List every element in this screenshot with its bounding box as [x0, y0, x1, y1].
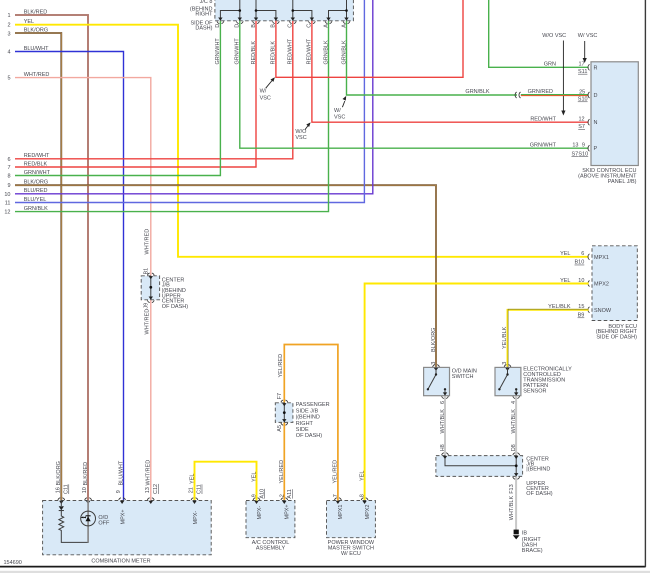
combination meter box	[43, 501, 212, 565]
ECU pin N 12 S7	[530, 117, 597, 131]
svg-text:F13: F13	[509, 484, 515, 493]
svg-text:PANEL J/B): PANEL J/B)	[608, 179, 637, 185]
svg-text:WHT/RED: WHT/RED	[144, 309, 150, 335]
svg-text:B9: B9	[578, 313, 585, 319]
passenger J/B junction node	[283, 403, 286, 423]
svg-text:S10: S10	[578, 97, 588, 103]
svg-text:GRN: GRN	[544, 62, 556, 68]
body ECU pin MPX1 6 B10	[560, 251, 609, 266]
svg-text:9: 9	[7, 183, 10, 189]
svg-text:B: B	[251, 24, 257, 28]
meter pin 13 C12	[145, 460, 159, 504]
passenger J/B pin A5	[277, 419, 288, 432]
wire BLU/RED 10 (exits top of page)	[15, 0, 373, 194]
O/D switch contacts	[427, 367, 447, 395]
svg-text:BLU/WHT: BLU/WHT	[24, 46, 49, 52]
J/C internal bus pair D-D	[220, 0, 241, 21]
svg-text:GRN/WHT: GRN/WHT	[215, 38, 221, 65]
J/C pin D2	[235, 18, 244, 28]
svg-text:BLU/RED: BLU/RED	[24, 188, 48, 194]
svg-text:16: 16	[55, 487, 61, 493]
center J/B pin H8 entry	[442, 453, 449, 459]
svg-text:1: 1	[7, 13, 10, 19]
svg-text:10: 10	[82, 487, 88, 493]
svg-text:GRN/BLK: GRN/BLK	[465, 89, 489, 95]
svg-text:RED/WHT: RED/WHT	[288, 38, 294, 64]
center J/B internal bus	[445, 456, 518, 477]
svg-text:W/ ECU: W/ ECU	[341, 551, 361, 557]
wire YEL 2 (left row 2 to body ECU MPX1)	[15, 25, 589, 257]
svg-text:GRN/RED: GRN/RED	[528, 89, 553, 95]
center J/B junction node	[149, 276, 152, 300]
svg-text:YEL: YEL	[189, 474, 195, 484]
sensor pin 4	[511, 392, 520, 404]
O/D switch pin 6	[440, 392, 449, 404]
wire GRN (from top of page to skid control ECU pin R)	[489, 0, 589, 67]
svg-text:R: R	[594, 65, 598, 71]
wire YEL (meter pin 21 to A/C control pin 9)	[189, 462, 257, 501]
svg-text:C12: C12	[153, 484, 159, 494]
svg-text:S10: S10	[578, 151, 588, 157]
svg-text:MPX2: MPX2	[594, 282, 609, 288]
svg-text:P: P	[594, 146, 598, 152]
svg-text:DASH): DASH)	[195, 26, 212, 32]
svg-text:IB: IB	[522, 530, 528, 536]
passenger J/B pin F7	[277, 393, 288, 406]
svg-text:3: 3	[7, 32, 10, 38]
label W/ VSC (top, arrow to ECU pin R wire)	[578, 33, 598, 63]
svg-text:9: 9	[582, 143, 585, 149]
junction connector J/C (behind right side of dash)	[190, 0, 354, 32]
svg-text:C11: C11	[197, 484, 203, 494]
svg-text:D: D	[215, 24, 221, 28]
svg-text:N: N	[594, 120, 598, 126]
svg-text:OFF: OFF	[98, 521, 110, 527]
wire RED/BLK 7	[15, 21, 256, 167]
svg-text:W/: W/	[260, 88, 267, 94]
svg-text:GRN/WHT: GRN/WHT	[530, 143, 557, 149]
svg-text:SNOW: SNOW	[594, 308, 612, 314]
svg-text:154690: 154690	[4, 560, 22, 566]
wire WHT/BLK (O/D switch pin 6 to center J/B pin H8)	[440, 396, 446, 456]
svg-text:13: 13	[145, 487, 151, 493]
label W/O VSC (RED/WHT branch)	[295, 122, 310, 141]
svg-text:MPX-: MPX-	[257, 506, 263, 520]
svg-text:11: 11	[5, 201, 11, 207]
svg-text:A10: A10	[259, 489, 265, 499]
J/C pin A1	[323, 18, 332, 28]
O/D switch pin 3	[431, 328, 440, 371]
svg-text:WHT/BLK: WHT/BLK	[509, 496, 515, 521]
power window master switch box	[327, 501, 376, 557]
svg-text:2: 2	[279, 494, 285, 497]
wire GRN/WHT 8	[15, 21, 220, 176]
svg-text:12: 12	[578, 117, 584, 123]
svg-text:D: D	[594, 93, 598, 99]
svg-text:VSC: VSC	[334, 114, 345, 120]
inline connector (( on GRN/BLK to GRN/RED	[515, 92, 520, 98]
svg-text:S7: S7	[571, 151, 578, 157]
svg-text:YEL/BLK: YEL/BLK	[502, 326, 508, 349]
J/C pin D1	[215, 18, 224, 28]
label W/ VSC (GRN/BLK branch)	[334, 96, 346, 121]
svg-text:RED/BLK: RED/BLK	[271, 41, 277, 65]
label W/O VSC (top, arrow to ECU pin N wire)	[542, 33, 566, 116]
PW pin 8	[360, 494, 368, 504]
svg-text:YEL/RED: YEL/RED	[278, 354, 284, 378]
wire RED/WHT (pin C2, W/O VSC, to skid control ECU pin N)	[312, 21, 589, 122]
svg-text:MPX-: MPX-	[193, 511, 199, 525]
svg-text:SENSOR: SENSOR	[523, 388, 546, 394]
wire RED/WHT 6	[15, 21, 293, 159]
svg-text:SIDE OF DASH): SIDE OF DASH)	[596, 335, 637, 341]
svg-text:OF DASH): OF DASH)	[526, 491, 552, 497]
svg-text:RED/WHT: RED/WHT	[24, 153, 50, 159]
svg-text:J/C 8: J/C 8	[200, 0, 213, 5]
svg-text:W/ VSC: W/ VSC	[578, 33, 598, 39]
passenger side J/B (behind right side of dash)	[275, 402, 329, 439]
svg-text:D8: D8	[511, 444, 517, 451]
svg-text:8: 8	[360, 494, 366, 497]
svg-text:6: 6	[7, 157, 10, 163]
svg-text:A: A	[323, 24, 329, 28]
label W/ VSC (RED/BLK branch)	[260, 77, 275, 101]
wire WHT/BLK (center J/B F13 to ground IB)	[509, 476, 516, 529]
svg-text:YEL: YEL	[560, 251, 570, 257]
svg-text:F7: F7	[277, 393, 283, 399]
wire YEL (body ECU MPX2 to power window master switch pin 8)	[359, 284, 588, 501]
svg-text:WHT/BLK: WHT/BLK	[511, 409, 517, 434]
wire WHT/RED 5 (left row 5 through center J/B to meter pin 13)	[15, 78, 151, 501]
svg-text:WHT/RED: WHT/RED	[144, 229, 150, 255]
svg-text:SIDE J/B: SIDE J/B	[296, 408, 319, 414]
svg-text:YEL: YEL	[359, 471, 365, 481]
meter pin 9	[116, 460, 125, 504]
electronically controlled transmission pattern sensor	[495, 366, 572, 395]
meter internal resistor	[59, 511, 88, 543]
svg-text:ASSEMBLY: ASSEMBLY	[256, 545, 286, 551]
svg-text:RED/BLK: RED/BLK	[24, 161, 48, 167]
svg-text:W/: W/	[334, 108, 341, 114]
svg-text:17: 17	[578, 62, 584, 68]
svg-text:MPX+: MPX+	[285, 504, 291, 519]
svg-text:A5: A5	[277, 425, 283, 432]
svg-text:B1: B1	[144, 268, 150, 275]
sensor pin 3	[502, 362, 511, 371]
svg-text:9: 9	[252, 494, 258, 497]
svg-text:25: 25	[579, 89, 585, 95]
wire BLK/RED 1 (left row 1 to combination meter pin 10)	[15, 15, 88, 501]
wire YEL/RED (A/C control pin 2 via passenger side J/B to PW switch pin 7)	[278, 345, 339, 501]
center J/B pin B1	[144, 268, 155, 280]
svg-text:BLU/YEL: BLU/YEL	[24, 197, 47, 203]
svg-text:YEL: YEL	[24, 19, 34, 25]
svg-text:W/O VSC: W/O VSC	[542, 33, 566, 39]
svg-text:GRN/WHT: GRN/WHT	[235, 38, 241, 65]
wire YEL/BLK (body ECU SNOW to transmission pattern sensor pin 3)	[502, 309, 589, 367]
J/C pin B1	[251, 18, 260, 28]
wire GRN/BLK (pin A2, W/ VSC, to inline connector)	[347, 21, 518, 95]
svg-text:21: 21	[189, 487, 195, 493]
svg-text:WHT/RED: WHT/RED	[146, 460, 152, 486]
svg-text:C: C	[288, 24, 294, 28]
svg-text:S11: S11	[578, 69, 587, 75]
svg-text:|(BEHIND: |(BEHIND	[296, 415, 320, 421]
svg-text:RIGHT: RIGHT	[195, 12, 213, 18]
svg-text:BLK/RED: BLK/RED	[83, 462, 89, 486]
center J/B pin D8 entry	[513, 453, 520, 459]
skid control ECU box	[578, 62, 638, 185]
svg-text:RED/WHT: RED/WHT	[307, 38, 313, 64]
svg-text:2: 2	[7, 23, 10, 29]
svg-text:5: 5	[7, 76, 10, 82]
wire GRN/WHT (pin D2 to skid control ECU pin P)	[240, 21, 589, 148]
wire RED/BLK (pin B2, W/ VSC, exits top right)	[276, 0, 463, 77]
svg-text:B10: B10	[575, 260, 585, 266]
svg-text:RIGHT: RIGHT	[296, 421, 314, 427]
svg-text:3: 3	[431, 362, 437, 365]
ECU pin D 25 S10	[578, 89, 598, 102]
A/C pin 2 A11	[279, 489, 293, 504]
svg-text:GRN/BLK: GRN/BLK	[24, 206, 48, 212]
svg-text:BLK/ORG: BLK/ORG	[431, 328, 437, 352]
svg-text:12: 12	[4, 210, 10, 216]
svg-text:RED/WHT: RED/WHT	[530, 117, 556, 123]
svg-text:7: 7	[7, 165, 10, 171]
svg-text:7: 7	[333, 494, 339, 497]
J/C pin B2	[271, 18, 280, 28]
svg-text:BLK/ORG: BLK/ORG	[24, 27, 48, 33]
A/C control assembly box	[246, 501, 295, 552]
svg-text:MPX2: MPX2	[365, 505, 371, 520]
svg-text:WHT/RED: WHT/RED	[24, 72, 50, 78]
svg-text:C11: C11	[64, 484, 70, 494]
center J/B (middle, on WHT/RED wire)	[141, 276, 188, 310]
O/D OFF indicator lamp	[81, 501, 110, 543]
svg-text:YEL/RED: YEL/RED	[333, 460, 339, 484]
svg-text:RED/BLK: RED/BLK	[251, 41, 257, 65]
meter pin 16 C11	[55, 461, 69, 504]
O/D main switch S1	[424, 367, 477, 395]
sensor contacts	[498, 367, 517, 395]
svg-text:OF DASH): OF DASH)	[162, 304, 188, 310]
svg-text:YEL/RED: YEL/RED	[279, 460, 285, 484]
svg-text:COMBINATION METER: COMBINATION METER	[91, 558, 150, 564]
svg-text:GRN/BLK: GRN/BLK	[323, 40, 329, 64]
wire GRN/BLK 12 (to J/C pin A)	[15, 21, 329, 212]
svg-text:SIDE: SIDE	[296, 427, 309, 433]
PW pin 7	[333, 494, 341, 504]
svg-text:6: 6	[581, 251, 584, 257]
svg-text:10: 10	[4, 192, 10, 198]
svg-text:J9: J9	[144, 303, 150, 309]
svg-text:MPX+: MPX+	[120, 509, 126, 524]
body ECU pin MPX2 10	[560, 278, 609, 288]
center J/B pin J9	[144, 297, 155, 309]
svg-text:VSC: VSC	[260, 96, 271, 102]
svg-text:OF DASH): OF DASH)	[296, 433, 322, 439]
center J/B (bottom, behind upper center of dash)	[436, 456, 553, 498]
svg-text:8: 8	[7, 174, 10, 180]
svg-text:BLK/ORG: BLK/ORG	[24, 180, 48, 186]
svg-text:YEL: YEL	[251, 472, 257, 482]
svg-text:VSC: VSC	[295, 135, 306, 141]
body ECU box	[592, 246, 638, 341]
svg-text:BLK/ORG: BLK/ORG	[56, 461, 62, 485]
svg-text:BRACE): BRACE)	[522, 548, 543, 554]
svg-text:S7: S7	[578, 124, 585, 130]
svg-text:A11: A11	[287, 489, 293, 498]
svg-text:MPX1: MPX1	[338, 505, 344, 520]
J/C pin A2	[341, 18, 350, 28]
wire WHT/BLK (sensor pin 4 to center J/B pin D8)	[511, 396, 517, 456]
center J/B pin F13 exit	[509, 473, 520, 494]
J/C internal bus pair B-B	[255, 0, 276, 21]
body ECU pin SNOW 15 B9	[548, 304, 612, 318]
svg-text:WHT/BLK: WHT/BLK	[440, 409, 446, 434]
svg-text:MPX1: MPX1	[594, 255, 609, 261]
J/C pin C1	[288, 18, 297, 28]
svg-text:3: 3	[502, 362, 508, 365]
J/C internal bus pair C-C	[292, 0, 312, 21]
wire BLK/ORG 3 (left row 3 to combination meter pin 16)	[15, 33, 61, 501]
svg-text:|(BEHIND: |(BEHIND	[526, 467, 550, 473]
J/C pin C2	[307, 18, 316, 28]
ECU pin R 17 S11	[544, 62, 598, 75]
wire GRN/RED (connector to ECU pin D)	[521, 95, 589, 96]
svg-text:H8: H8	[440, 444, 446, 451]
meter pin 21 C11	[189, 484, 203, 504]
svg-text:SWITCH: SWITCH	[452, 374, 474, 380]
A/C pin 9 A10	[252, 489, 266, 504]
svg-text:GRN/BLK: GRN/BLK	[341, 40, 347, 64]
svg-text:9: 9	[116, 490, 122, 493]
svg-text:4: 4	[7, 50, 10, 56]
svg-text:BLU/WHT: BLU/WHT	[118, 460, 124, 485]
svg-text:13: 13	[572, 143, 578, 149]
ground IB (right dash brace)	[513, 530, 543, 554]
meter pin 10	[82, 462, 91, 504]
svg-text:GRN/WHT: GRN/WHT	[24, 170, 51, 176]
svg-text:PASSENGER: PASSENGER	[296, 402, 330, 408]
wire BLU/YEL 11 (exits top of page)	[15, 0, 364, 203]
svg-text:BLK/RED: BLK/RED	[24, 9, 48, 15]
wire BLK/ORG 9 (to O/D main switch pin 3)	[15, 185, 436, 367]
meter internal diode	[59, 501, 64, 511]
ECU pin P 13 9 S7 S10	[530, 143, 598, 158]
J/C internal bus pair A-A	[329, 0, 348, 21]
wire BLU/WHT 4 (left row 4 to combination meter pin 9)	[15, 52, 124, 501]
